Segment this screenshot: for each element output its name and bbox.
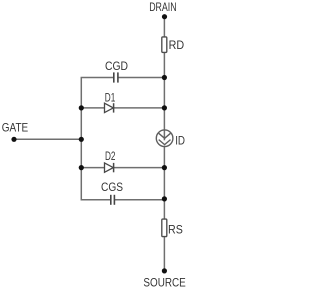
svg-text:DRAIN: DRAIN <box>149 0 176 14</box>
svg-text:CGD: CGD <box>105 59 128 73</box>
svg-text:ID: ID <box>175 133 185 147</box>
svg-text:GATE: GATE <box>2 121 28 135</box>
svg-text:CGS: CGS <box>101 180 123 194</box>
svg-text:SOURCE: SOURCE <box>143 275 185 289</box>
svg-text:D1: D1 <box>105 91 116 105</box>
svg-text:RD: RD <box>169 38 185 52</box>
svg-text:RS: RS <box>168 222 183 236</box>
svg-text:D2: D2 <box>105 149 116 163</box>
